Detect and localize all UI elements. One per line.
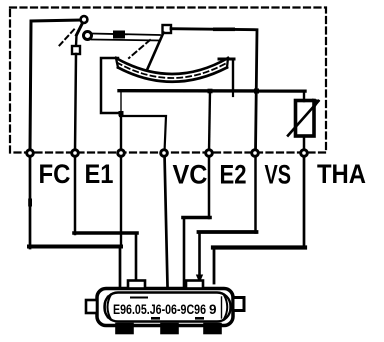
svg-text:VC: VC	[173, 160, 208, 190]
svg-text:9: 9	[209, 302, 217, 317]
svg-text:THA: THA	[317, 159, 366, 189]
svg-text:E96.05.J6-06-9C96: E96.05.J6-06-9C96	[113, 302, 206, 317]
svg-text:E2: E2	[220, 160, 247, 190]
svg-text:E1: E1	[85, 159, 114, 189]
svg-text:FC: FC	[39, 159, 71, 189]
svg-text:VS: VS	[265, 160, 292, 190]
